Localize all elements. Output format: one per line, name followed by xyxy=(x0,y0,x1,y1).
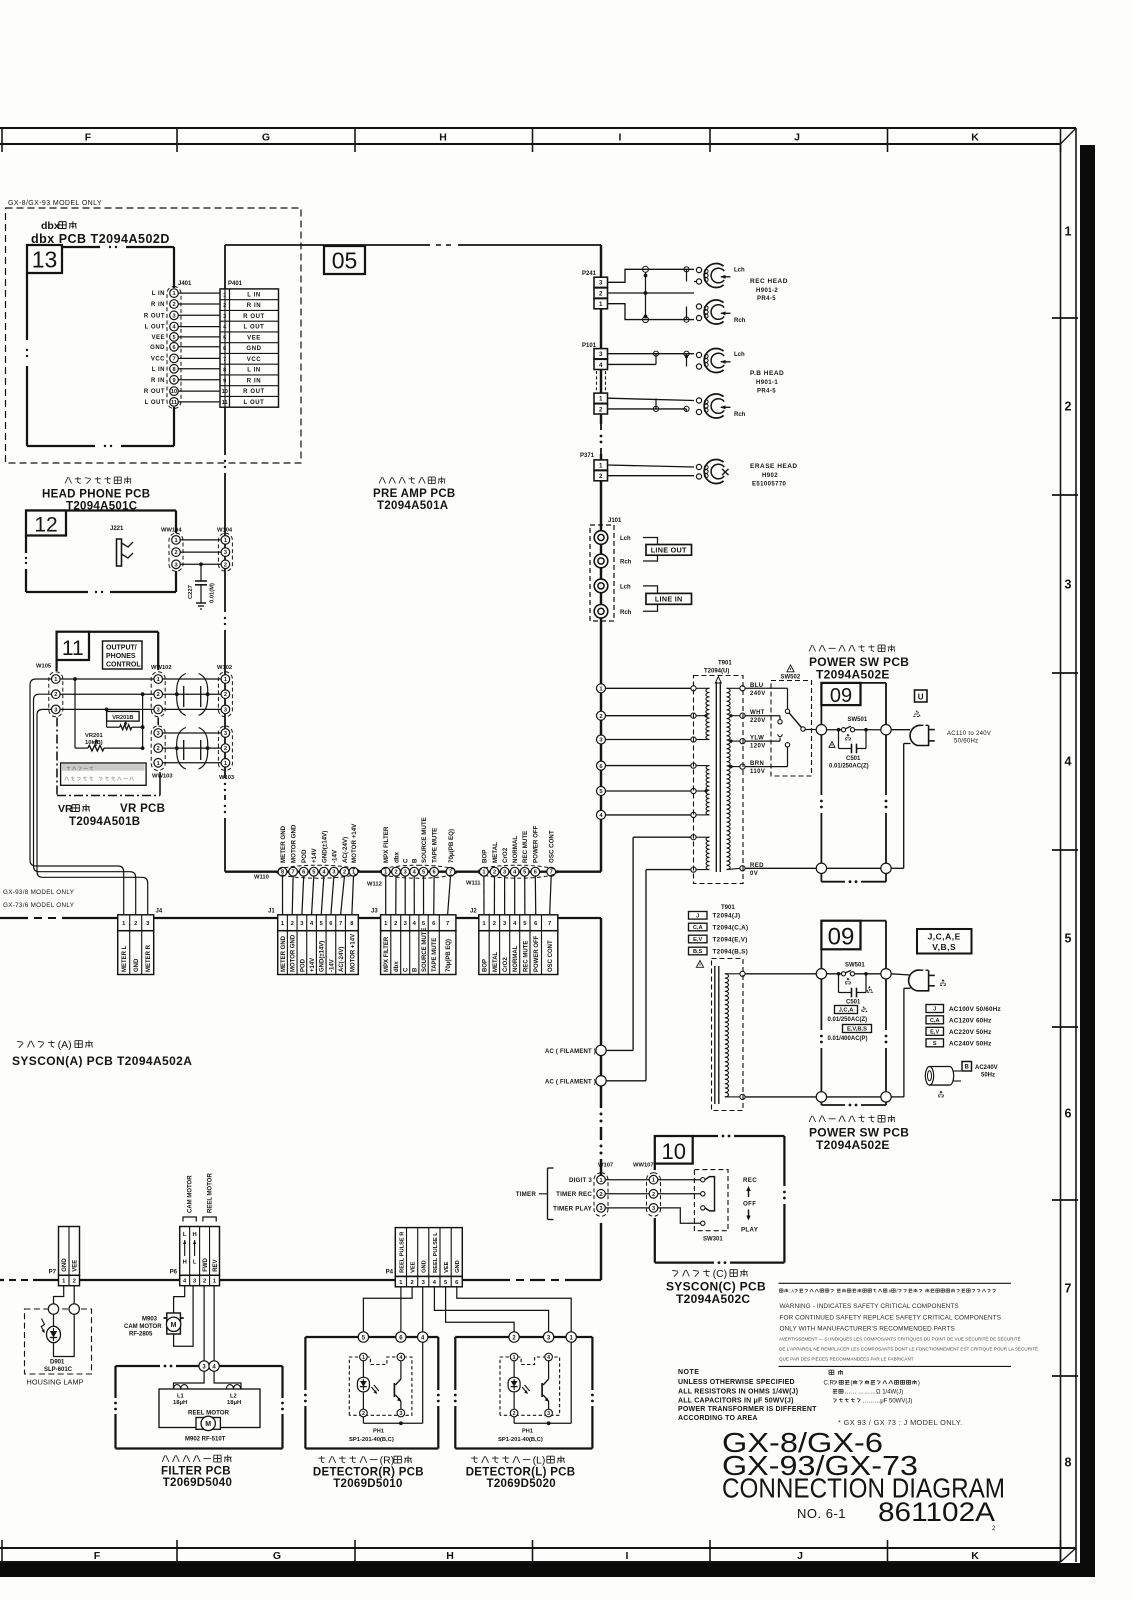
shaded control label box xyxy=(61,763,147,785)
svg-text:1: 1 xyxy=(157,761,160,767)
wire transformer to PCB (lower) xyxy=(745,974,881,1097)
wire P101-3 to PB head Lch xyxy=(608,351,695,366)
drop wires W112 pins to J3 xyxy=(386,876,451,915)
svg-text:05: 05 xyxy=(332,248,358,274)
svg-text:2: 2 xyxy=(157,746,160,752)
svg-text:SOURCE MUTE: SOURCE MUTE xyxy=(422,928,428,972)
PB head Lch terminals xyxy=(696,352,701,357)
svg-text:J221: J221 xyxy=(110,526,124,532)
svg-text:E51005770: E51005770 xyxy=(752,482,787,488)
svg-text:G: G xyxy=(273,1550,281,1562)
svg-text:QUE PAR DES PIÈCES RECOMMANDÉE: QUE PAR DES PIÈCES RECOMMANDÉES PAR LE F… xyxy=(779,1356,914,1362)
svg-text:VEE: VEE xyxy=(247,335,261,341)
voltage table xyxy=(926,1005,1001,1048)
label FILTER PCB T2069D5040 xyxy=(162,1455,165,1462)
svg-text:L IN: L IN xyxy=(247,368,261,374)
svg-text:2: 2 xyxy=(224,746,227,752)
svg-text:E,V,B,S: E,V,B,S xyxy=(847,1027,867,1033)
svg-text:10: 10 xyxy=(661,1139,685,1164)
PCB hole terminals (lower 09) xyxy=(816,969,826,979)
svg-text:6: 6 xyxy=(1065,1107,1072,1121)
svg-text:W104: W104 xyxy=(217,527,233,533)
svg-text:8: 8 xyxy=(172,367,175,373)
svg-text:T2094A501B: T2094A501B xyxy=(69,816,140,828)
svg-text:FOR CONTINUED SAFETY REPLAC: FOR CONTINUED SAFETY REPLACE SAFETY CRIT… xyxy=(780,1315,1002,1322)
LED emitter xyxy=(357,1361,379,1409)
lamp D901 SLP-601C xyxy=(41,1314,74,1356)
svg-text:T901: T901 xyxy=(718,661,732,667)
svg-text:7: 7 xyxy=(548,921,551,927)
interrupter pins 2 and 3 xyxy=(510,1409,518,1417)
RCA jack J101-4 xyxy=(594,605,608,619)
svg-text:POD: POD xyxy=(300,958,306,972)
svg-text:2: 2 xyxy=(343,870,346,876)
svg-text:SYSCON(A) PCB T2094A502A: SYSCON(A) PCB T2094A502A xyxy=(12,1054,192,1068)
potentiometer VR201 10k(B) xyxy=(73,677,143,751)
svg-text:2: 2 xyxy=(291,921,294,927)
svg-text:1: 1 xyxy=(174,538,177,544)
svg-text:NO. 6-1: NO. 6-1 xyxy=(797,1506,846,1521)
circled bus pins 1 2 3 6 5 4 xyxy=(597,684,606,693)
transformer T901 dashed box xyxy=(694,676,744,884)
svg-text:AC240V 50Hz: AC240V 50Hz xyxy=(949,1040,991,1047)
svg-text:VR201B: VR201B xyxy=(112,715,133,721)
svg-text:W110: W110 xyxy=(254,875,269,881)
wires W107 to WW107 and to SW301 xyxy=(605,1180,700,1224)
OUTPUT/PHONES CONTROL label box xyxy=(103,641,143,669)
svg-text:AC110 to 240V: AC110 to 240V xyxy=(947,731,991,737)
svg-text:T2094A502E: T2094A502E xyxy=(816,1138,890,1152)
svg-text:ALL CAPACITORS IN μF 50WV(J): ALL CAPACITORS IN μF 50WV(J) xyxy=(678,1397,794,1404)
AC plug (upper) xyxy=(910,710,935,745)
border frame: right ruler column with row numbers xyxy=(1052,144,1078,1562)
TIMER bracket xyxy=(516,1168,554,1220)
svg-text:DE L'APPAREIL NE REMPLACER LES: DE L'APPAREIL NE REMPLACER LES COMPOSANT… xyxy=(779,1346,1038,1352)
svg-text:C501: C501 xyxy=(846,1000,861,1006)
svg-text:PHONES: PHONES xyxy=(106,653,136,660)
lamp terminals xyxy=(48,1304,58,1314)
svg-text:WW107: WW107 xyxy=(633,1163,654,1169)
dbx PCB outline xyxy=(25,245,174,448)
svg-text:W102: W102 xyxy=(217,665,232,671)
RCA jack J101-3 xyxy=(594,579,608,593)
svg-text:PLAY: PLAY xyxy=(741,1227,759,1234)
border frame: heavy black bar right edge xyxy=(1080,145,1095,1577)
svg-text:REV: REV xyxy=(213,1259,219,1271)
CAM MOTOR bracket label xyxy=(183,1175,196,1222)
svg-text:REC HEAD: REC HEAD xyxy=(750,278,788,285)
svg-text:3: 3 xyxy=(224,550,227,556)
svg-text:3: 3 xyxy=(599,280,603,287)
svg-text:OSC CONT: OSC CONT xyxy=(549,830,556,863)
power sw PCB outline (upper 09) xyxy=(820,683,887,883)
svg-text:Lch: Lch xyxy=(734,352,745,358)
label B AC240V 50Hz xyxy=(962,1062,998,1079)
svg-text:B: B xyxy=(412,858,419,863)
svg-text:GX-8/GX-93 MODEL ONLY: GX-8/GX-93 MODEL ONLY xyxy=(8,200,102,207)
label SYSCON(C) PCB T2094A502C xyxy=(672,1269,678,1272)
shielded cable WW103 to W103 xyxy=(163,728,221,770)
svg-text:dbx: dbx xyxy=(41,220,60,232)
node AC (FILAMENT) 1 xyxy=(545,1040,633,1056)
svg-text:C: C xyxy=(404,967,410,972)
detector PCB caption xyxy=(473,1456,475,1462)
svg-text:L: L xyxy=(183,1232,187,1238)
svg-text:3: 3 xyxy=(1065,578,1072,592)
svg-text:E,V: E,V xyxy=(693,937,702,943)
detector PCB outline xyxy=(454,1337,594,1449)
connector P401 table xyxy=(220,289,279,407)
svg-text:3: 3 xyxy=(54,707,57,713)
svg-text:(A): (A) xyxy=(58,1039,72,1051)
svg-text:220V: 220V xyxy=(750,718,766,724)
lower transformer secondary dashed box xyxy=(696,959,745,1111)
svg-text:GND(±14V): GND(±14V) xyxy=(321,831,328,863)
transformer core xyxy=(715,677,721,873)
svg-text:120V: 120V xyxy=(750,744,766,750)
svg-text:dbx: dbx xyxy=(394,961,400,972)
switch SW502 voltage selector xyxy=(745,665,816,776)
svg-text:GX-73/6 MODEL ONLY: GX-73/6 MODEL ONLY xyxy=(3,902,75,909)
svg-text:GND: GND xyxy=(246,346,261,352)
svg-text:L2: L2 xyxy=(230,1394,237,1400)
detector PCB outline xyxy=(304,1337,440,1449)
transformer secondary winding xyxy=(727,688,741,869)
svg-text:1: 1 xyxy=(513,1355,516,1361)
erase head xyxy=(704,460,723,484)
svg-text:1: 1 xyxy=(599,462,603,469)
svg-text:POD: POD xyxy=(301,849,308,863)
junction verticals with hops (REC head wiring) xyxy=(643,266,690,322)
transformer primary windings xyxy=(696,688,709,869)
svg-text:Rch: Rch xyxy=(620,560,632,566)
svg-text:dbx: dbx xyxy=(393,851,400,863)
svg-text:LINE OUT: LINE OUT xyxy=(651,546,687,555)
svg-text:11: 11 xyxy=(62,637,84,660)
svg-text:MPX FILTER: MPX FILTER xyxy=(384,936,390,972)
svg-text:+14V: +14V xyxy=(310,958,316,972)
block number 10 xyxy=(655,1136,693,1164)
border frame: top ruler band with column letters xyxy=(0,128,1076,152)
svg-text:110V: 110V xyxy=(750,769,765,775)
svg-text:-14V: -14V xyxy=(329,959,335,972)
svg-text:AC ( FILAMENT ): AC ( FILAMENT ) xyxy=(545,1080,596,1086)
svg-text:REEL PULSE R: REEL PULSE R xyxy=(399,1232,405,1273)
warning text block rule top xyxy=(779,1282,1012,1284)
svg-text:12: 12 xyxy=(34,514,57,537)
wire P241-3 to REC head Lch xyxy=(608,269,695,282)
LINE IN label box xyxy=(643,586,692,611)
detector ground wiring xyxy=(363,1342,422,1425)
W110 pin signal labels xyxy=(280,823,358,863)
svg-text:OFF: OFF xyxy=(743,1201,756,1208)
dash-dot bus break above P371 xyxy=(599,424,603,454)
capacitor C501 (lower) xyxy=(839,974,873,1006)
svg-text:R OUT: R OUT xyxy=(243,314,265,320)
svg-text:4: 4 xyxy=(547,1355,550,1361)
svg-text:L1: L1 xyxy=(177,1394,185,1400)
marker box U xyxy=(915,690,928,702)
wire lower PCB to plug xyxy=(891,974,910,1097)
connector P6 xyxy=(170,1227,220,1286)
block number 11 xyxy=(57,632,89,660)
svg-text:H: H xyxy=(183,1260,187,1266)
svg-text:3: 3 xyxy=(652,1206,655,1212)
drop wires W111 pins to J2 xyxy=(484,876,551,915)
svg-text:2: 2 xyxy=(134,921,137,927)
svg-text:6: 6 xyxy=(302,870,305,876)
RCA jack J101-1 xyxy=(594,531,608,545)
svg-text:NORMAL: NORMAL xyxy=(512,836,519,863)
border frame: heavy black bar bottom edge xyxy=(0,1563,1095,1577)
svg-text:WW102: WW102 xyxy=(151,665,172,671)
svg-text:OUTPUT/: OUTPUT/ xyxy=(106,645,137,652)
svg-text:2: 2 xyxy=(599,1192,602,1198)
P6 motor direction labels xyxy=(183,1232,197,1266)
svg-text:P371: P371 xyxy=(580,453,595,459)
wires bus pins to transformer primary xyxy=(606,688,691,815)
svg-text:7: 7 xyxy=(1065,1282,1072,1296)
svg-text:SP1-201-40(B,C): SP1-201-40(B,C) xyxy=(349,1437,394,1443)
switch SW501 (upper) xyxy=(827,717,881,740)
svg-text:PR4-5: PR4-5 xyxy=(757,296,776,302)
svg-text:………μF 50WV(J): ………μF 50WV(J) xyxy=(862,1399,912,1405)
svg-text:ONLY WITH MANUFACTURER'S RE: ONLY WITH MANUFACTURER'S RECOMMENDED PAR… xyxy=(780,1326,955,1333)
svg-text:TIMER: TIMER xyxy=(516,1191,537,1198)
svg-text:SW301: SW301 xyxy=(703,1237,723,1243)
japanese warning small print xyxy=(778,1289,780,1292)
svg-text:C.R: C.R xyxy=(824,1381,835,1387)
svg-text:METAL: METAL xyxy=(493,951,499,972)
photo interrupter PH1 dashed box xyxy=(500,1357,560,1415)
svg-text:S: S xyxy=(933,1041,937,1047)
svg-text:R OUT: R OUT xyxy=(144,389,165,395)
svg-text:T2094(J): T2094(J) xyxy=(713,913,741,920)
svg-text:M: M xyxy=(171,1322,177,1329)
svg-text:2: 2 xyxy=(224,692,227,698)
svg-text:2: 2 xyxy=(224,562,227,568)
svg-text:70μ(PB EQ): 70μ(PB EQ) xyxy=(446,939,452,972)
svg-text:PR4-5: PR4-5 xyxy=(757,389,776,395)
wire SW501 output to plug xyxy=(891,729,910,731)
headphone jack J221 xyxy=(110,526,133,566)
svg-text:HOUSING LAMP: HOUSING LAMP xyxy=(27,1378,84,1387)
svg-text:P6: P6 xyxy=(170,1270,178,1276)
block number 09 (lower) xyxy=(821,921,860,950)
svg-text:H901-1: H901-1 xyxy=(756,380,778,386)
svg-text:C227: C227 xyxy=(188,585,194,599)
detector PCB caption xyxy=(320,1456,322,1462)
svg-text:REC MUTE: REC MUTE xyxy=(522,831,529,863)
svg-text:LINE IN: LINE IN xyxy=(655,595,683,604)
svg-text:-14V: -14V xyxy=(331,849,338,863)
svg-text:2: 2 xyxy=(599,406,603,413)
svg-text:SOURCE MUTE: SOURCE MUTE xyxy=(421,817,428,863)
svg-text:T901: T901 xyxy=(721,905,735,911)
connector WW103 xyxy=(154,729,163,738)
svg-text:ACCORDING TO AREA: ACCORDING TO AREA xyxy=(678,1415,758,1422)
W111 pin signal labels xyxy=(481,825,555,863)
wire transformer primary lower taps to AC filament xyxy=(633,837,691,1081)
interrupter pins 1 and 4 xyxy=(510,1353,518,1361)
svg-text:R OUT: R OUT xyxy=(243,389,265,395)
svg-text:B,S: B,S xyxy=(693,949,703,955)
photo transistor xyxy=(542,1361,549,1409)
svg-text:18μH: 18μH xyxy=(227,1400,241,1406)
svg-text:REEL PULSE L: REEL PULSE L xyxy=(433,1232,439,1273)
syscon bus horizontal xyxy=(0,918,601,1040)
svg-text:50/60Hz: 50/60Hz xyxy=(954,739,978,745)
connector J4 xyxy=(118,909,163,975)
photo interrupter PH1 dashed box xyxy=(349,1357,412,1415)
wire P241-1 to REC head Rch xyxy=(608,304,695,320)
svg-text:240V: 240V xyxy=(750,691,766,697)
svg-text:2: 2 xyxy=(1065,400,1072,414)
svg-text:J1: J1 xyxy=(268,909,275,915)
wire P401 column down to W110 bus xyxy=(224,407,226,872)
svg-text:7: 7 xyxy=(339,921,342,927)
svg-text:L OUT: L OUT xyxy=(244,325,265,331)
svg-text:W103: W103 xyxy=(219,775,235,781)
potentiometer VR201B xyxy=(105,708,143,730)
svg-text:TAPE MUTE: TAPE MUTE xyxy=(432,828,439,863)
svg-text:J: J xyxy=(797,1550,803,1562)
svg-text:F: F xyxy=(85,132,92,144)
svg-text:09: 09 xyxy=(828,924,855,951)
VR PCB outline top xyxy=(89,631,158,633)
connector W103 xyxy=(221,729,230,738)
svg-text:P401: P401 xyxy=(228,281,243,287)
svg-text:3: 3 xyxy=(224,731,227,737)
svg-text:TIMER PLAY: TIMER PLAY xyxy=(553,1205,593,1212)
svg-text:T2094(B,S): T2094(B,S) xyxy=(713,948,749,955)
connector J3 xyxy=(371,909,456,975)
svg-text:U: U xyxy=(918,693,924,702)
svg-text:2: 2 xyxy=(599,290,603,297)
svg-text:SLP-601C: SLP-601C xyxy=(44,1367,73,1373)
warning text block rule bottom xyxy=(779,1365,1012,1367)
svg-text:2: 2 xyxy=(493,870,496,876)
svg-text:L OUT: L OUT xyxy=(145,400,165,406)
svg-text:W107: W107 xyxy=(598,1163,613,1169)
svg-text:1: 1 xyxy=(599,301,603,308)
svg-text:18μH: 18μH xyxy=(173,1400,187,1406)
main head/line bus vertical xyxy=(600,245,602,872)
svg-text:TIMER REC: TIMER REC xyxy=(556,1191,592,1198)
PB head Rch terminals xyxy=(696,398,701,403)
svg-text:F: F xyxy=(94,1550,101,1562)
ground symbol below C227 xyxy=(196,602,206,604)
svg-text:2: 2 xyxy=(599,714,602,720)
svg-text:1: 1 xyxy=(224,761,227,767)
svg-text:CrO2: CrO2 xyxy=(503,957,509,972)
svg-text:3: 3 xyxy=(503,870,506,876)
svg-text:3: 3 xyxy=(404,870,407,876)
svg-text:CrO2: CrO2 xyxy=(502,847,509,863)
svg-text:DIGIT 3: DIGIT 3 xyxy=(569,1177,592,1184)
AC plug (lower) xyxy=(909,970,946,991)
svg-text:J: J xyxy=(933,1007,936,1013)
svg-text:VEE: VEE xyxy=(411,1261,417,1273)
erase head terminals xyxy=(696,464,701,469)
svg-text:2: 2 xyxy=(513,1411,516,1417)
svg-text:10: 10 xyxy=(171,389,177,395)
detector PCB top pins xyxy=(509,1332,519,1342)
svg-text:4: 4 xyxy=(599,362,603,369)
label PRE AMP PCB T2094A501A xyxy=(379,477,382,483)
svg-text:VR201: VR201 xyxy=(85,733,104,739)
svg-text:861102A: 861102A xyxy=(878,1497,995,1527)
svg-text:L IN: L IN xyxy=(152,291,165,297)
svg-text:MOTOR +14V: MOTOR +14V xyxy=(351,823,358,863)
svg-text:C501: C501 xyxy=(846,756,861,762)
svg-text:PH1: PH1 xyxy=(522,1429,533,1435)
svg-text:5: 5 xyxy=(172,335,175,341)
svg-text:R IN: R IN xyxy=(151,302,165,308)
PCB hole terminals (upper 09) xyxy=(816,725,826,735)
svg-text:2: 2 xyxy=(493,921,496,927)
svg-text:L IN: L IN xyxy=(247,292,261,298)
svg-text:V,B,S: V,B,S xyxy=(932,942,956,952)
svg-text:): ) xyxy=(918,1381,920,1387)
detector ground wiring xyxy=(514,1342,571,1425)
svg-text:D901: D901 xyxy=(50,1360,65,1366)
svg-text:POWER OFF: POWER OFF xyxy=(534,935,540,972)
block number 12 xyxy=(26,511,66,536)
svg-text:J4: J4 xyxy=(156,909,163,915)
svg-text:AVERTISSEMENT — SI INDIQUÉS LE: AVERTISSEMENT — SI INDIQUÉS LES COMPOSAN… xyxy=(779,1336,1021,1342)
svg-text:H: H xyxy=(446,1550,454,1562)
svg-text:2: 2 xyxy=(394,921,397,927)
svg-text:SW501: SW501 xyxy=(848,717,868,723)
svg-text:7: 7 xyxy=(292,870,295,876)
wires P4 to detector pins xyxy=(363,1287,571,1332)
svg-text:2: 2 xyxy=(54,692,57,698)
svg-text:BOP: BOP xyxy=(481,850,488,863)
svg-text:POWER OFF: POWER OFF xyxy=(533,825,540,863)
svg-text:GX-93/8 MODEL ONLY: GX-93/8 MODEL ONLY xyxy=(3,889,75,896)
svg-text:1: 1 xyxy=(224,677,227,683)
PB head Rch xyxy=(704,394,723,418)
transformer secondary taps xyxy=(740,686,745,871)
svg-text:R IN: R IN xyxy=(247,303,261,309)
svg-text:VCC: VCC xyxy=(151,356,165,362)
svg-text:1: 1 xyxy=(157,677,160,683)
svg-text:2: 2 xyxy=(599,473,603,480)
syscon(C) PCB outline xyxy=(655,1135,786,1264)
svg-text:OSC CONT: OSC CONT xyxy=(548,940,554,972)
label POWER SW PCB T2094A502E (upper) xyxy=(809,645,812,651)
svg-text:J101: J101 xyxy=(608,518,622,524)
svg-text:W105: W105 xyxy=(36,664,52,670)
svg-text:C: C xyxy=(403,858,410,863)
label SYSCON(A) PCB T2094A502A xyxy=(17,1040,23,1043)
svg-text:Lch: Lch xyxy=(620,585,631,591)
svg-text:1: 1 xyxy=(599,1178,602,1184)
svg-text:C,A: C,A xyxy=(930,1018,940,1024)
label HEAD PHONE PCB T2094A501C xyxy=(65,477,68,483)
svg-text:3: 3 xyxy=(172,313,175,319)
svg-text:T2094(U): T2094(U) xyxy=(704,669,729,675)
svg-text:MPX FILTER: MPX FILTER xyxy=(383,826,390,863)
svg-text:J2: J2 xyxy=(470,909,477,915)
motor M903 CAM MOTOR RF-2805 xyxy=(164,1286,194,1347)
svg-text:7: 7 xyxy=(446,921,449,927)
svg-text:GND(±14V): GND(±14V) xyxy=(320,941,326,972)
svg-text:METER GND: METER GND xyxy=(280,825,287,863)
svg-text:1: 1 xyxy=(599,396,603,403)
svg-text:P4: P4 xyxy=(386,1270,394,1276)
